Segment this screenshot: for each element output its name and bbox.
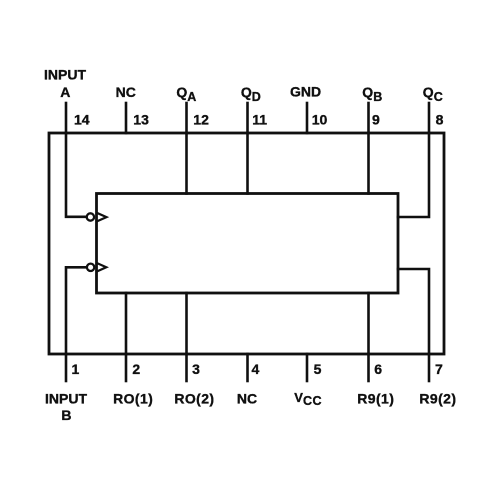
svg-text:5: 5 — [314, 361, 322, 377]
svg-text:RO(1): RO(1) — [113, 391, 153, 407]
svg-text:9: 9 — [372, 112, 380, 128]
svg-text:7: 7 — [435, 361, 443, 377]
svg-text:3: 3 — [192, 361, 200, 377]
svg-text:13: 13 — [133, 112, 149, 128]
svg-text:INPUT: INPUT — [45, 391, 87, 407]
svg-text:A: A — [60, 84, 70, 100]
svg-text:14: 14 — [74, 112, 90, 128]
svg-text:R9(1): R9(1) — [357, 391, 394, 407]
svg-text:12: 12 — [193, 112, 209, 128]
svg-text:10: 10 — [312, 112, 328, 128]
svg-text:INPUT: INPUT — [44, 67, 86, 83]
svg-text:2: 2 — [132, 361, 140, 377]
svg-text:B: B — [61, 407, 71, 423]
svg-text:NC: NC — [116, 84, 136, 100]
svg-text:1: 1 — [72, 361, 80, 377]
svg-text:6: 6 — [374, 361, 382, 377]
svg-text:NC: NC — [237, 391, 257, 407]
svg-text:GND: GND — [290, 83, 321, 99]
svg-text:R9(2): R9(2) — [419, 391, 456, 407]
svg-text:8: 8 — [436, 112, 444, 128]
svg-text:11: 11 — [252, 112, 267, 128]
svg-text:RO(2): RO(2) — [174, 391, 214, 407]
svg-text:4: 4 — [252, 361, 260, 377]
